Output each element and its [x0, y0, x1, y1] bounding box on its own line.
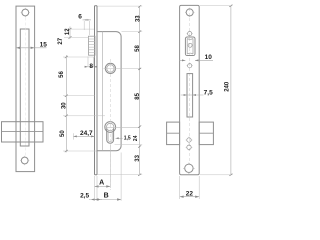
case front wall [102, 32, 104, 151]
left plate top screw hole [22, 9, 29, 16]
middle centerline vertical [109, 59, 111, 190]
svg-text:24,7: 24,7 [80, 130, 93, 137]
svg-text:22: 22 [186, 190, 194, 197]
left deadbolt box midline [2, 130, 44, 132]
left plate inner slot [20, 29, 29, 48]
follower centerline horizontal [104, 67, 140, 69]
chain ticks [65, 28, 72, 152]
svg-text:6: 6 [78, 14, 82, 21]
small hole above latch [188, 31, 192, 35]
screw hole 2 [187, 145, 191, 149]
dimension B [95, 199, 122, 201]
cylinder centerline horizontal [104, 126, 140, 128]
deadbolt left wing [167, 122, 180, 145]
dimension 15 line [16, 47, 47, 49]
dimension 7,5 [181, 94, 204, 96]
svg-text:B: B [104, 192, 109, 199]
extension lines [98, 6, 143, 175]
latch opening [185, 37, 195, 56]
right dimension chain line [139, 6, 141, 175]
svg-text:10: 10 [205, 54, 213, 61]
svg-text:33: 33 [135, 154, 141, 161]
bottom screw hole [185, 164, 193, 172]
dimension 10 [180, 59, 214, 61]
svg-text:27: 27 [58, 37, 64, 44]
svg-text:2,5: 2,5 [80, 192, 89, 199]
left plate centerline [24, 18, 26, 158]
svg-text:50: 50 [60, 130, 66, 137]
svg-text:1,5: 1,5 [124, 135, 131, 141]
svg-text:7,5: 7,5 [204, 89, 213, 96]
dimension 24,7 [73, 135, 94, 137]
dimension 1,5 [116, 137, 123, 139]
faceplate outline [180, 5, 200, 174]
top screw hole [186, 9, 193, 16]
dimension 8 [85, 66, 98, 68]
cylinder slot (side) [107, 129, 114, 144]
small hole below latch [188, 64, 192, 68]
svg-text:12: 12 [65, 28, 71, 35]
svg-text:85: 85 [135, 92, 141, 99]
screw hole 1 [187, 138, 191, 142]
left dimension chain line [69, 27, 71, 39]
svg-text:58: 58 [135, 45, 141, 52]
chain ticks [138, 5, 141, 176]
latch bolt front [187, 39, 193, 55]
faceplate (side) [95, 6, 98, 175]
latch bolt (side, serrated) [89, 36, 96, 55]
240 chain line [230, 6, 232, 175]
svg-text:56: 56 [59, 71, 65, 78]
cylinder hole [105, 122, 116, 133]
svg-text:24: 24 [133, 135, 139, 141]
dimension 6 [83, 19, 92, 21]
svg-text:33: 33 [136, 15, 142, 22]
centerline [189, 8, 191, 164]
latch center hole [188, 43, 192, 47]
left plate bottom screw hole [21, 157, 28, 164]
svg-text:30: 30 [61, 102, 67, 109]
svg-text:240: 240 [224, 81, 230, 92]
svg-text:15: 15 [40, 41, 48, 48]
dimension A [95, 185, 111, 187]
svg-text:A: A [99, 180, 104, 187]
cylinder slot front [187, 74, 193, 117]
follower hub [105, 63, 115, 73]
svg-text:8: 8 [89, 63, 93, 70]
left deadbolt box [2, 122, 44, 142]
left plate outline [16, 6, 35, 172]
case outline [97, 32, 121, 151]
dimension 2,5 [91, 199, 102, 201]
extension lines to features [63, 29, 105, 151]
dimension 22 [180, 196, 200, 198]
deadbolt right wing [199, 122, 213, 145]
